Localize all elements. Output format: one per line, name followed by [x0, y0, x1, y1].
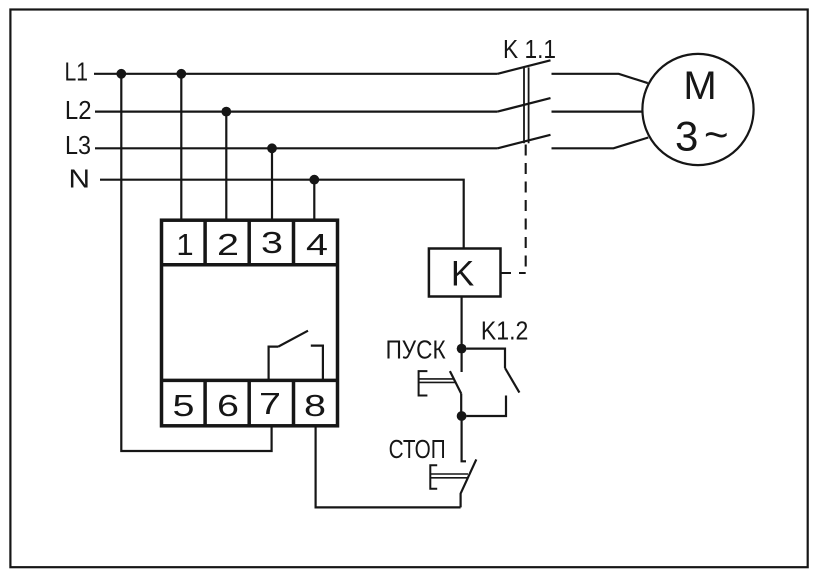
stop button СТОП (NC pushbutton) [430, 416, 476, 507]
wire terminal 8 to stop button [316, 426, 461, 507]
wire contact to motor phase 3 [552, 138, 649, 149]
auxiliary contact K1.2 [466, 349, 519, 416]
svg-text:4: 4 [306, 227, 328, 262]
wire L2 [95, 110, 498, 112]
svg-text:K1.2: K1.2 [481, 316, 529, 346]
wire L3 [95, 147, 498, 149]
relay output contact (terminals 7-8) [269, 331, 323, 381]
junction L2 [221, 107, 231, 117]
wire L2 to terminal 2 [225, 112, 227, 221]
svg-text:L3: L3 [65, 130, 91, 160]
svg-text:L2: L2 [65, 95, 92, 125]
junction L1 drop [176, 69, 186, 79]
wire contact to motor phase 1 [552, 74, 648, 83]
junction L1-term1 [116, 69, 126, 79]
svg-text:8: 8 [304, 388, 326, 423]
svg-text:6: 6 [217, 388, 239, 423]
svg-text:ПУСК: ПУСК [386, 334, 446, 364]
svg-text:K: K [451, 255, 474, 294]
svg-text:K 1.1: K 1.1 [503, 34, 556, 64]
wire N to terminal 4 [313, 180, 315, 221]
wire coil K to start node [461, 297, 463, 349]
svg-text:~: ~ [704, 111, 729, 158]
node start button top [457, 344, 467, 354]
contactor coil K box [429, 249, 501, 297]
wire L1 [94, 73, 498, 75]
wire N to coil K [100, 180, 464, 249]
svg-text:1: 1 [176, 227, 193, 262]
contactor contact K1.1 phase L2 blade [498, 98, 551, 112]
K1.1 to coil dashed link [525, 145, 527, 274]
wire contact to motor phase 2 [552, 110, 644, 112]
junction L3 [267, 143, 277, 153]
svg-text:5: 5 [173, 388, 195, 423]
K1.1 mechanical coupling bars [524, 67, 529, 143]
svg-text:N: N [69, 164, 91, 194]
svg-text:3: 3 [261, 225, 283, 260]
svg-text:7: 7 [259, 386, 281, 421]
wire L1 down-left to terminal 7 [121, 74, 271, 451]
svg-text:СТОП: СТОП [389, 434, 446, 464]
wire L3 to terminal 3 [271, 148, 273, 220]
svg-text:M: M [683, 64, 716, 108]
contactor contact K1.1 phase L1 blade [498, 60, 551, 74]
start button ПУСК (NO pushbutton) [419, 349, 462, 416]
relay module body [162, 220, 338, 426]
node start button bottom [457, 411, 467, 421]
junction N [309, 175, 319, 185]
wire L1 to terminal 1 [180, 74, 182, 220]
svg-text:3: 3 [675, 113, 698, 160]
motor M circle [642, 54, 753, 165]
contactor contact K1.1 phase L3 blade [498, 135, 551, 149]
svg-text:2: 2 [217, 227, 239, 262]
svg-text:L1: L1 [65, 56, 89, 86]
